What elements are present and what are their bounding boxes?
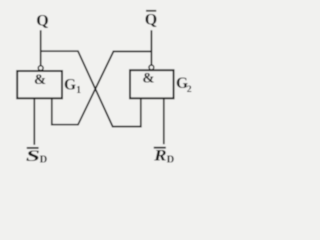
wire Q-bar vertical (Q-bar label to G2 output bubble) [150, 30, 152, 65]
wire Q-bar branch: junction to TR corner, diagonal down to BL corner, to G1 right input [52, 51, 152, 124]
svg-text:&: & [34, 72, 46, 88]
label S_D with overline [27, 147, 39, 149]
and-gate G1 body [17, 71, 62, 98]
svg-text:D: D [167, 154, 175, 165]
svg-text:Q: Q [145, 11, 157, 28]
wire G1 left input down to S_D [33, 98, 35, 145]
svg-text:D: D [40, 154, 48, 165]
svg-text:&: & [142, 70, 154, 86]
and-gate G2 body [130, 70, 174, 98]
overline of Q-bar [146, 10, 156, 12]
svg-text:S: S [26, 147, 40, 165]
svg-text:R: R [153, 146, 167, 164]
inverter bubble of G2 [149, 65, 154, 70]
inverter bubble of G1 [38, 66, 43, 71]
wire G2 right input down to R_D [163, 98, 165, 145]
label R_D with overline [154, 147, 166, 149]
wire Q branch: junction to TL corner, diagonal down to BR corner, to G2 left input [40, 51, 141, 126]
svg-text:Q: Q [36, 13, 48, 30]
wire Q vertical (Q label to G1 output bubble) [40, 30, 42, 65]
